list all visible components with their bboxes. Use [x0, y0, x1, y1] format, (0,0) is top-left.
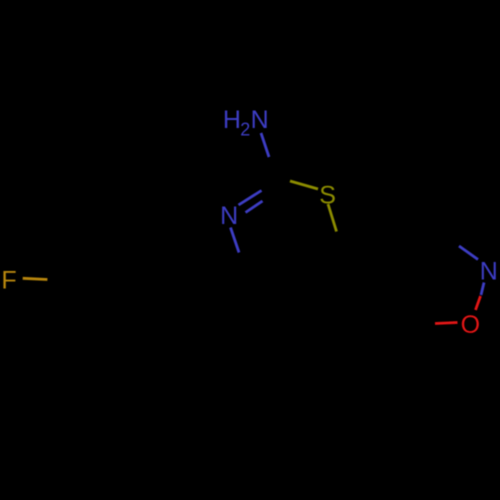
wire C2 to S (yellow half bond)	[290, 181, 318, 189]
wire isoxazole N-O bond, N side (blue half)	[481, 283, 484, 296]
wire H2N to C2 (blue half bond)	[261, 133, 269, 157]
svg-text:F: F	[1, 267, 16, 295]
wire C2=N3 double bond outer line (blue half)	[239, 191, 262, 206]
wire F to phenyl carbon (goldenrod half bond)	[23, 278, 48, 279]
svg-text:H: H	[223, 106, 241, 134]
svg-text:O: O	[461, 311, 480, 339]
svg-text:2: 2	[240, 119, 250, 139]
wire isoxazole C3=N (blue half bond)	[459, 246, 478, 260]
wire N3 to C4 (blue half bond)	[231, 228, 240, 253]
wire O to isoxazole C5 (red half bond)	[435, 323, 458, 324]
wire isoxazole N-O bond, O side (red half)	[476, 296, 481, 310]
svg-text:N: N	[251, 106, 269, 134]
wire S to C5 (yellow half bond)	[328, 204, 337, 232]
svg-text:N: N	[480, 258, 498, 286]
svg-text:N: N	[220, 202, 238, 230]
wire C2=N3 double bond inner line (blue half)	[246, 201, 263, 213]
node H2N amine nitrogen label	[223, 106, 269, 139]
